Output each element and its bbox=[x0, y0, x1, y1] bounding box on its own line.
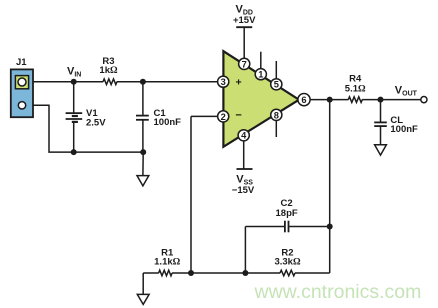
wire R4 node down to CL top bbox=[380, 100, 382, 123]
wire VDD to pin7 bbox=[243, 27, 245, 59]
op-amp pin 4 bbox=[238, 130, 249, 141]
wire ground G3 leg bbox=[142, 273, 144, 295]
connector J1 pin1 circle bbox=[18, 78, 26, 86]
svg-text:+15V: +15V bbox=[233, 15, 256, 26]
node R4/CL dot bbox=[378, 97, 384, 103]
svg-text:6: 6 bbox=[301, 95, 306, 105]
svg-text:2.5V: 2.5V bbox=[86, 117, 106, 128]
wire C2 right horizontal bbox=[289, 226, 330, 228]
svg-text:1.1kΩ: 1.1kΩ bbox=[154, 257, 181, 268]
node V1 bottom rail dot bbox=[71, 149, 77, 155]
wire pin6 output to VOUT terminal bbox=[310, 99, 349, 101]
connector J1 pin2 circle bbox=[18, 102, 25, 109]
svg-text:www.cntronics.com: www.cntronics.com bbox=[254, 281, 422, 303]
svg-text:5: 5 bbox=[274, 80, 279, 90]
wire J1 pin2 to lower rail corner bbox=[24, 105, 143, 152]
wire feedback vertical to R1/R2 junction bbox=[190, 116, 192, 273]
svg-text:100nF: 100nF bbox=[390, 124, 418, 135]
op-amp pin 1 bbox=[255, 69, 266, 80]
resistor R4 bbox=[348, 97, 362, 103]
node C2 right dot bbox=[327, 224, 333, 230]
svg-text:−: − bbox=[235, 109, 241, 121]
wire output node down to R2 right bbox=[329, 100, 331, 273]
battery V1 bbox=[66, 113, 83, 122]
svg-text:4: 4 bbox=[241, 131, 247, 141]
terminal VOUT open circle bbox=[421, 97, 427, 103]
svg-text:1kΩ: 1kΩ bbox=[99, 65, 118, 76]
wire R1 right to R2 left bbox=[172, 272, 280, 274]
op-amp pin 6 bbox=[298, 94, 310, 106]
svg-text:+: + bbox=[236, 77, 242, 89]
svg-text:8: 8 bbox=[274, 110, 279, 120]
node C1 bottom rail dot bbox=[140, 149, 146, 155]
svg-text:5.1Ω: 5.1Ω bbox=[345, 84, 366, 95]
svg-text:7: 7 bbox=[242, 59, 247, 69]
wire ground leg to R1 left bbox=[143, 272, 159, 274]
wire R3 node down to C1 top bbox=[142, 82, 144, 116]
svg-text:−15V: −15V bbox=[232, 185, 255, 196]
wire C2 left vertical bbox=[244, 227, 246, 274]
svg-text:18pF: 18pF bbox=[276, 208, 298, 219]
wire pin2 to feedback node bbox=[191, 115, 218, 117]
op-amp pin 8 bbox=[271, 109, 282, 120]
op-amp pin 5 bbox=[271, 79, 282, 90]
svg-text:2: 2 bbox=[221, 112, 226, 122]
wire V1 bottom to ground rail bbox=[73, 122, 75, 152]
connector J1 pin1 square bbox=[15, 76, 28, 89]
op-amp U1 triangle bbox=[223, 51, 299, 147]
wire stub above pin1 bbox=[260, 52, 262, 69]
svg-text:3.3kΩ: 3.3kΩ bbox=[274, 257, 301, 268]
wire C2 left horizontal bbox=[245, 226, 284, 228]
svg-text:3: 3 bbox=[221, 77, 226, 87]
connector J1 body bbox=[11, 69, 33, 117]
ground G3 (bottom left) bbox=[137, 294, 149, 304]
op-amp pin 7 bbox=[239, 58, 250, 69]
op-amp pin 3 bbox=[218, 76, 229, 87]
wire J1 pin1 to op-amp pin3 (VIN net) bbox=[24, 81, 103, 83]
wire stub above pin5 bbox=[275, 61, 277, 79]
wire R2 right to output vertical bbox=[295, 272, 330, 274]
node VIN dot bbox=[71, 79, 77, 85]
op-amp pin 2 bbox=[218, 111, 229, 122]
svg-text:100nF: 100nF bbox=[154, 117, 182, 128]
capacitor C1 bbox=[136, 116, 149, 120]
node R2/C2 left dot bbox=[242, 270, 248, 276]
svg-text:1: 1 bbox=[258, 70, 263, 80]
wire stub below pin8 bbox=[275, 120, 277, 137]
node R3/C1 dot bbox=[140, 79, 146, 85]
node output dot bbox=[327, 97, 333, 103]
wire VSS bar bbox=[237, 168, 253, 170]
wire C1 bottom to rail bbox=[142, 120, 144, 152]
resistor R3 bbox=[103, 79, 117, 85]
resistor R1 bbox=[159, 270, 172, 276]
wire CL bottom to ground G2 bbox=[380, 126, 382, 145]
wire VIN node down to V1 top bbox=[73, 82, 75, 113]
wire pin4 to VSS bar bbox=[243, 141, 245, 170]
resistor R2 bbox=[280, 270, 295, 276]
node R1/feedback dot bbox=[188, 270, 194, 276]
ground G1 (below C1 rail) bbox=[137, 176, 149, 186]
capacitor C2 bbox=[285, 221, 289, 233]
svg-text:J1: J1 bbox=[16, 57, 27, 68]
capacitor CL bbox=[374, 122, 387, 126]
wire VDD bar bbox=[236, 26, 252, 28]
ground G2 (below CL) bbox=[375, 145, 387, 155]
wire rail node down to ground G1 bbox=[142, 152, 144, 176]
